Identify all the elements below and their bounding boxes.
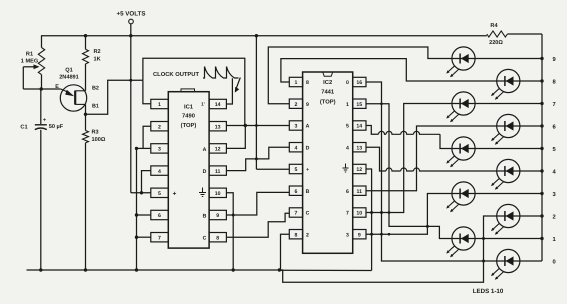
svg-text:4: 4 <box>346 145 349 151</box>
svg-text:+: + <box>173 190 177 197</box>
wire IC2 pin1 output-8 top route <box>281 59 497 82</box>
svg-text:1: 1 <box>346 102 349 108</box>
svg-text:10: 10 <box>356 211 362 217</box>
svg-text:B2: B2 <box>92 86 99 92</box>
svg-text:9: 9 <box>216 213 219 219</box>
wire IC2 pin8 output-2 bottom route <box>281 216 497 282</box>
IC U1 7490 decade counter (IC1) <box>151 89 227 248</box>
wire LED 1 anode to bus / node 1 <box>475 237 556 243</box>
wire +5 rail to IC2 pin5 Vcc <box>255 34 290 169</box>
svg-text:50 µF: 50 µF <box>49 124 64 130</box>
IC U2 7441 BCD-to-decimal decoder (IC2) <box>289 72 366 253</box>
svg-text:1: 1 <box>294 80 297 86</box>
svg-text:A: A <box>203 147 207 153</box>
svg-text:13: 13 <box>215 124 221 130</box>
svg-text:13: 13 <box>356 145 362 151</box>
svg-text:C: C <box>306 211 310 217</box>
svg-text:IC1: IC1 <box>184 104 194 111</box>
svg-text:R3: R3 <box>92 130 99 136</box>
svg-text:7: 7 <box>553 102 556 108</box>
clock output callout box <box>143 58 245 125</box>
svg-text:5: 5 <box>346 124 349 130</box>
wire IC1 pin3 ground bus <box>135 147 151 270</box>
wire LED 7 anode to bus / node 7 <box>475 102 556 108</box>
svg-text:1 MEG: 1 MEG <box>21 59 38 65</box>
LED 2 <box>491 204 520 234</box>
svg-text:7441: 7441 <box>321 90 335 96</box>
wire IC2 pin2 output-9 top route <box>268 47 452 104</box>
svg-text:8: 8 <box>216 235 219 241</box>
svg-text:14: 14 <box>356 124 362 130</box>
svg-text:B: B <box>203 214 207 220</box>
wire IC1 pin9 QB to IC2 pin6 (B) <box>226 192 289 215</box>
wire IC1 pin4 to Vcc <box>140 171 151 195</box>
svg-text:R2: R2 <box>94 49 101 55</box>
caption LEDS 1-10 <box>473 288 504 295</box>
svg-text:B1: B1 <box>92 104 99 110</box>
svg-text:2: 2 <box>294 102 297 108</box>
wire LED 8 anode to bus / node 8 <box>520 78 557 85</box>
wire LED 6 anode to bus / node 6 <box>520 123 557 130</box>
wire IC1 pin11 QD to IC2 pin4 (D) <box>226 147 289 170</box>
svg-text:+: + <box>43 118 46 124</box>
resistor R3 100 ohm <box>83 104 106 270</box>
+5V supply terminal <box>117 11 146 24</box>
svg-text:11: 11 <box>215 169 221 175</box>
wire IC1 pin6 to ground bus <box>137 214 151 216</box>
svg-text:2: 2 <box>553 213 556 220</box>
LED 9 <box>446 47 475 77</box>
svg-text:6: 6 <box>346 189 349 195</box>
wire IC1 pin2 to pin3 reset bus <box>143 126 151 148</box>
svg-text:3: 3 <box>158 147 161 153</box>
svg-text:CLOCK OUTPUT: CLOCK OUTPUT <box>153 71 200 78</box>
svg-text:12: 12 <box>215 147 221 153</box>
LED 4 <box>491 159 520 189</box>
LED 8 <box>491 69 520 99</box>
svg-text:14: 14 <box>215 102 221 108</box>
LED 7 <box>446 92 475 122</box>
wire IC1 pin7 to ground bus <box>137 236 151 238</box>
svg-text:15: 15 <box>356 102 362 108</box>
svg-text:7: 7 <box>346 211 349 217</box>
svg-text:2: 2 <box>306 232 309 238</box>
svg-text:LEDS 1-10: LEDS 1-10 <box>473 288 504 295</box>
wire LED 0 anode to bus / node 0 <box>520 258 556 265</box>
wire LED 3 anode to bus / node 3 <box>475 191 556 198</box>
svg-text:2: 2 <box>158 124 161 130</box>
R1 wiper arrow <box>23 64 39 89</box>
wire IC1 pin12 QA riser <box>226 126 245 149</box>
wire IC2 pin14 output-5 <box>366 126 452 149</box>
wire +5 terminal to rail / IC1 pin5 Vcc feed <box>129 24 150 193</box>
svg-text:12: 12 <box>356 167 362 173</box>
resistor R1 1 MEG <box>21 36 45 89</box>
svg-text:4: 4 <box>158 169 161 175</box>
svg-text:D: D <box>203 169 207 175</box>
transistor Q1 2N4891 (UJT) <box>55 68 99 112</box>
clock waveform pulses <box>203 67 239 79</box>
resistor R4 220 ohm <box>487 23 542 46</box>
wire LED 9 anode to bus / node 9 <box>475 56 556 63</box>
svg-text:11: 11 <box>357 189 363 195</box>
wire LED 5 anode to bus / node 5 <box>475 147 556 153</box>
wire IC2 pin16 output-0 <box>366 82 497 261</box>
svg-text:IC2: IC2 <box>323 79 332 86</box>
wire IC1 pin1 clock-B input <box>143 80 151 104</box>
svg-text:1’: 1’ <box>201 102 205 107</box>
svg-text:9: 9 <box>306 102 309 108</box>
svg-text:(TOP): (TOP) <box>320 99 336 106</box>
svg-text:220Ω: 220Ω <box>489 40 503 46</box>
svg-text:B: B <box>306 189 310 195</box>
svg-text:6: 6 <box>158 213 161 219</box>
svg-text:C1: C1 <box>20 125 27 131</box>
svg-text:E: E <box>55 84 59 90</box>
svg-text:C: C <box>203 236 207 242</box>
svg-text:7: 7 <box>158 235 161 241</box>
svg-text:Q1: Q1 <box>65 68 72 74</box>
wire LED 4 anode to bus / node 4 <box>520 169 557 175</box>
resistor R2 1K <box>83 34 101 91</box>
svg-text:7490: 7490 <box>182 113 195 120</box>
wire IC2 pin12 ground descent <box>366 169 373 271</box>
svg-text:2N4891: 2N4891 <box>59 75 79 81</box>
svg-text:8: 8 <box>294 232 297 238</box>
svg-text:0: 0 <box>346 80 349 86</box>
wire IC2 pin11 output-6 <box>366 126 497 191</box>
wire IC2 pin15 output-1 <box>366 104 452 239</box>
svg-text:R4: R4 <box>490 23 498 29</box>
LED 0 <box>491 249 520 279</box>
svg-text:5: 5 <box>294 167 297 173</box>
svg-text:A: A <box>306 124 310 130</box>
LED anode bus from R4 <box>541 34 543 261</box>
capacitor C1 50uF <box>20 89 63 270</box>
svg-text:R1: R1 <box>26 52 33 58</box>
bottom ground rail <box>27 268 372 271</box>
svg-text:16: 16 <box>356 80 362 86</box>
svg-text:9: 9 <box>358 232 361 238</box>
svg-text:10: 10 <box>215 191 221 197</box>
svg-text:4: 4 <box>294 145 297 151</box>
clock waveform arrow <box>235 78 241 93</box>
svg-text:5: 5 <box>158 191 161 197</box>
node R1-C1-emitter junction <box>23 87 61 90</box>
svg-text:+5 VOLTS: +5 VOLTS <box>117 11 146 18</box>
wire IC2 pin10 output-7 <box>366 104 452 215</box>
svg-text:7: 7 <box>294 211 297 217</box>
svg-text:0: 0 <box>553 258 556 265</box>
LED 1 <box>446 227 475 257</box>
svg-text:8: 8 <box>306 80 309 86</box>
wire IC1 pin8 QC to IC2 pin7 (C) <box>226 213 289 237</box>
svg-text:1K: 1K <box>94 57 101 63</box>
svg-text:1: 1 <box>158 102 161 108</box>
wire B1 clock tap to IC1 pin1 bus <box>86 80 143 114</box>
wire IC1 pin10 GND descent <box>226 193 235 272</box>
+5V top rail <box>41 35 487 37</box>
LED 5 <box>446 137 475 167</box>
svg-text:(TOP): (TOP) <box>181 122 197 129</box>
svg-text:6: 6 <box>294 189 297 195</box>
svg-text:D: D <box>306 145 310 151</box>
LED 3 <box>446 182 475 212</box>
wire IC2 pin13 output-4 <box>366 147 497 171</box>
wire IC1 pin13 / QA line to IC2 pin3 <box>226 124 289 127</box>
wire LED 2 anode to bus / node 2 <box>520 213 556 220</box>
svg-text:3: 3 <box>346 232 349 238</box>
svg-text:3: 3 <box>294 124 297 130</box>
svg-text:+: + <box>306 167 309 173</box>
svg-text:100Ω: 100Ω <box>92 137 106 143</box>
LED 6 <box>491 114 520 144</box>
wire IC2 pin9 output-3 <box>366 194 452 236</box>
wire IC1 pin14 clock input <box>226 78 232 104</box>
